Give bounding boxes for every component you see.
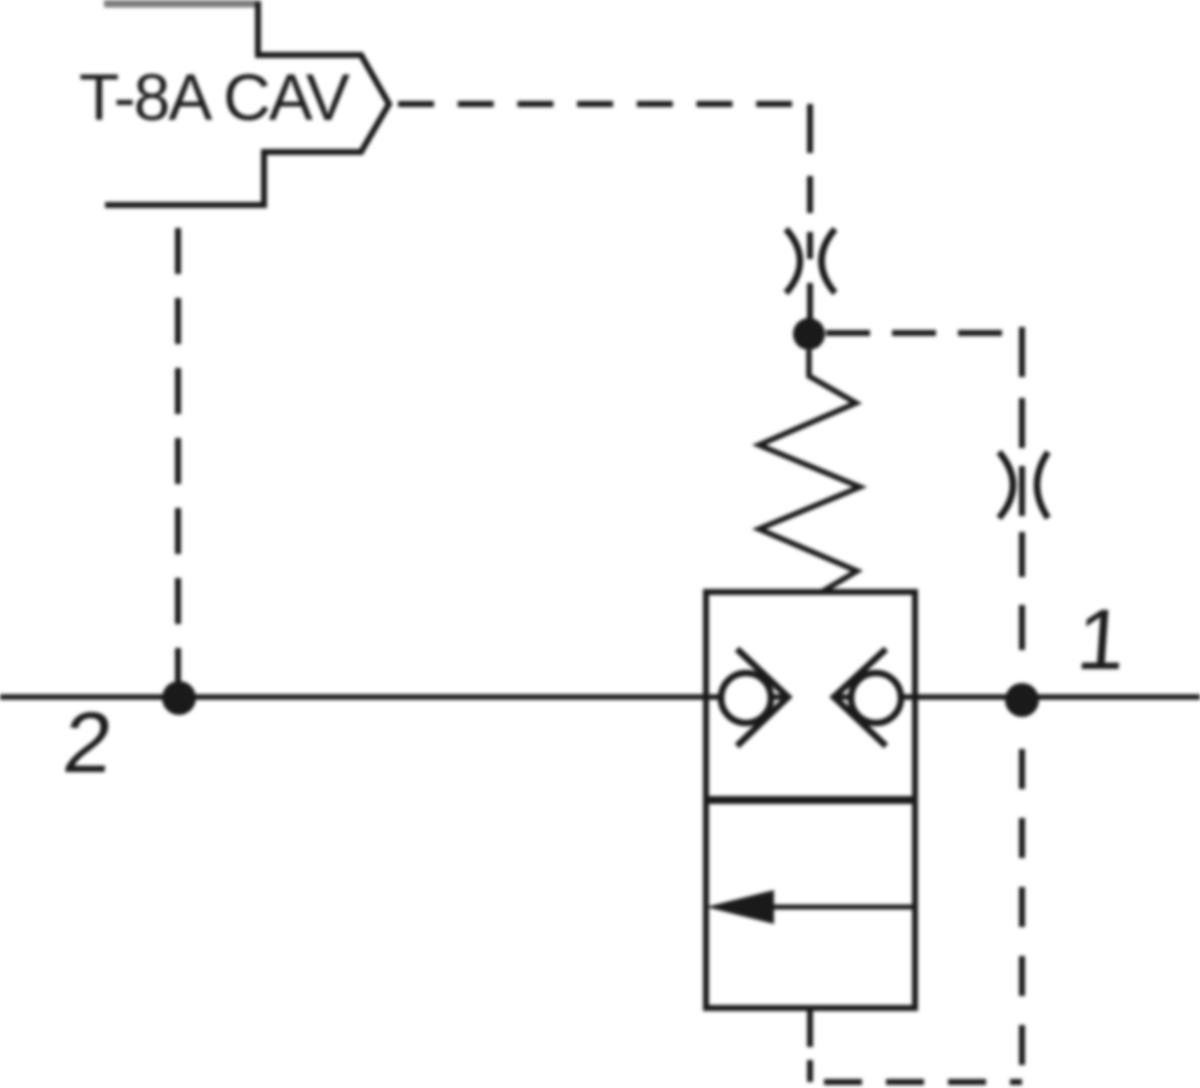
main line port 2 to port 1 (left segment) bbox=[0, 694, 786, 700]
spring K1 bbox=[759, 350, 860, 597]
node 1 (dot) bbox=[1005, 683, 1039, 717]
svg-text:1: 1 bbox=[1074, 592, 1129, 688]
wire: dashed pilot line from O2 to node 1 bbox=[1019, 532, 1025, 676]
wire: dash from orifice O1 to junction bbox=[807, 283, 813, 322]
valve body lower box bbox=[706, 800, 915, 1008]
wire: solid stub below valve body bbox=[807, 1008, 813, 1047]
orifice O1 (fixed restriction, top) bbox=[786, 229, 800, 293]
svg-text:2: 2 bbox=[59, 695, 117, 791]
cavity flag T-8A CAV outline bbox=[105, 2, 389, 205]
orifice O2 (fixed restriction, right) bbox=[999, 452, 1013, 518]
flow arrow head bbox=[706, 890, 774, 924]
port label 1 bbox=[1074, 592, 1129, 688]
node 2 (dot) bbox=[162, 681, 196, 715]
valve body divider emphasis bbox=[703, 796, 918, 804]
valve body upper box bbox=[706, 592, 915, 800]
wire: dashed pilot line below node 1 bbox=[1019, 727, 1025, 1082]
junction node J1 (dot) bbox=[793, 318, 825, 350]
check ball left (circle) bbox=[721, 673, 771, 723]
wire: dashed bottom pilot line bbox=[810, 1079, 1022, 1085]
flow arrow in lower box (shaft) bbox=[770, 905, 915, 910]
wire: dashed pilot line from J1 to right bbox=[826, 330, 1002, 336]
wire: dashed pilot line down to top orifice (vertical) bbox=[807, 104, 813, 228]
wire: dashed pilot line from flag point to top orifice (horizontal) bbox=[398, 101, 792, 107]
wire: dash through orifice O1 bbox=[807, 232, 813, 259]
wire: dashed pilot line down from corner to orifice O2 bbox=[1019, 327, 1025, 450]
port label 2 bbox=[59, 695, 117, 791]
wire: dashed pilot line from flag to node 2 bbox=[175, 205, 181, 688]
wire: dash through orifice O2 bbox=[1019, 466, 1025, 516]
main line stubs inside valve body bbox=[706, 694, 786, 700]
check ball right (circle) bbox=[851, 673, 901, 723]
check seat left (chevron) bbox=[737, 649, 788, 746]
wire: dashed stub below valve body bbox=[807, 1060, 813, 1082]
check seat right (chevron) bbox=[834, 649, 886, 746]
main line port 2 to port 1 (right segment) bbox=[834, 694, 1200, 700]
svg-text:T-8A CAV: T-8A CAV bbox=[79, 60, 350, 134]
cavity flag T-8A CAV outline (top edge, clipped at canvas) bbox=[104, 0, 261, 8]
